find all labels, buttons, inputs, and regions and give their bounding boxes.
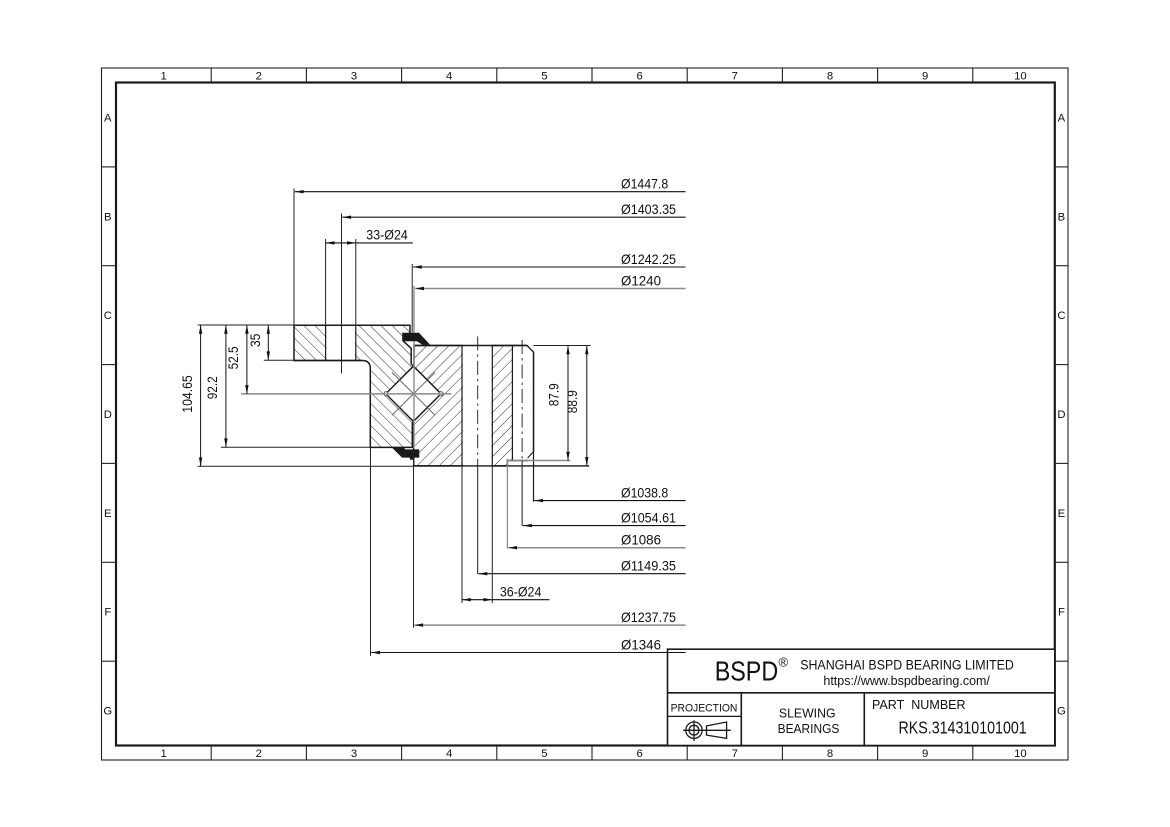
grid column tick dividers bottom strip bbox=[211, 746, 973, 761]
extension line: 104.65 outer ring bottom bbox=[198, 465, 414, 467]
svg-text:A: A bbox=[1058, 112, 1066, 124]
svg-text:104.65: 104.65 bbox=[179, 375, 195, 413]
dimension 52.5 bbox=[225, 325, 249, 394]
svg-text:G: G bbox=[103, 706, 112, 718]
svg-text:Ø1242.25: Ø1242.25 bbox=[621, 251, 676, 267]
svg-text:B: B bbox=[104, 211, 112, 223]
dimension leader &#216;1149.35 bbox=[479, 558, 686, 576]
gray reference vertical to &#216;1086 leader bbox=[506, 459, 508, 549]
dimension 36-&#216;24 hole width bbox=[462, 583, 550, 601]
extension line: 35 step surface bbox=[264, 359, 294, 361]
svg-text:C: C bbox=[1057, 310, 1065, 322]
bolt-circle centerline of outer ring holes bbox=[477, 336, 479, 468]
svg-text:Ø1403.35: Ø1403.35 bbox=[621, 201, 676, 217]
svg-text:BSPD: BSPD bbox=[715, 655, 779, 686]
svg-text:Ø1447.8: Ø1447.8 bbox=[621, 176, 668, 192]
svg-text:8: 8 bbox=[827, 748, 833, 760]
svg-text:6: 6 bbox=[636, 71, 642, 83]
dimension leader &#216;1038.8 bbox=[534, 484, 685, 502]
svg-text:Ø1149.35: Ø1149.35 bbox=[621, 558, 676, 574]
bearing inner ring cross-section (hatched) bbox=[294, 325, 413, 447]
extension line: outer ring top to right bbox=[534, 345, 591, 347]
svg-text:9: 9 bbox=[922, 748, 928, 760]
extension line for &#216;1447.8 (ring outer edge up) bbox=[293, 189, 295, 326]
svg-text:87.9: 87.9 bbox=[546, 383, 562, 406]
dimension leader &#216;1240 (gray reference) bbox=[415, 272, 685, 290]
lower seal (dark) bbox=[392, 448, 419, 460]
bearing outer ring cross-section (hatched) bbox=[413, 346, 533, 466]
dimension 92.2 bbox=[204, 325, 228, 447]
dimension 104.65 bbox=[179, 325, 203, 466]
svg-text:4: 4 bbox=[446, 71, 452, 83]
svg-text:Ø1346: Ø1346 bbox=[621, 636, 661, 652]
svg-text:PROJECTION: PROJECTION bbox=[671, 702, 738, 714]
roller vertical centerline (gray) bbox=[413, 286, 415, 448]
extension lines for 36-&#216;24 bbox=[461, 466, 463, 603]
grid column numbers 1-10 bottom bbox=[160, 748, 1026, 760]
dimension 35 bbox=[247, 325, 270, 360]
drawing frame outer border bbox=[102, 68, 1069, 760]
svg-text:5: 5 bbox=[541, 748, 547, 760]
svg-text:1: 1 bbox=[160, 71, 166, 83]
grid row tick dividers right strip bbox=[1055, 167, 1068, 661]
svg-text:10: 10 bbox=[1014, 71, 1027, 83]
extension line: ring top surface (left) bbox=[198, 324, 294, 326]
svg-text:2: 2 bbox=[256, 71, 262, 83]
drawing frame inner border bbox=[116, 83, 1055, 746]
svg-text:4: 4 bbox=[446, 748, 452, 760]
svg-text:88.9: 88.9 bbox=[564, 390, 580, 413]
outer ring bottom-right chamfer bbox=[528, 452, 534, 458]
outer ring top surface line bbox=[414, 345, 527, 347]
svg-text:C: C bbox=[104, 310, 112, 322]
dimension leader &#216;1346 bbox=[371, 636, 685, 654]
grid row letters A-G right bbox=[1057, 112, 1066, 717]
outer ring right edge + extension to diameter leaders bbox=[533, 352, 535, 501]
svg-text:D: D bbox=[104, 409, 112, 421]
svg-text:33-Ø24: 33-Ø24 bbox=[366, 227, 408, 243]
svg-text:E: E bbox=[1058, 508, 1066, 520]
dimension 33-&#216;24 hole width bbox=[326, 227, 413, 326]
dimension leader &#216;1447.8 bbox=[295, 176, 686, 194]
inner ring top surface line redraw over hole bbox=[294, 324, 410, 326]
svg-text:SLEWING: SLEWING bbox=[779, 706, 836, 721]
inner ring mounting bolt hole (33-&#216;24) white gap bbox=[327, 324, 355, 360]
svg-text:Ø1240: Ø1240 bbox=[621, 272, 661, 288]
svg-text:92.2: 92.2 bbox=[204, 376, 220, 399]
svg-text:PART NUMBER: PART NUMBER bbox=[872, 698, 966, 712]
svg-text:Ø1054.61: Ø1054.61 bbox=[621, 509, 676, 525]
dimension leader &#216;1086 (gray reference) bbox=[508, 532, 685, 550]
svg-text:10: 10 bbox=[1014, 748, 1027, 760]
extension line for &#216;1403.35 (bolt hole centerline) bbox=[341, 214, 343, 374]
grid row letters A-G left bbox=[103, 112, 112, 717]
svg-text:B: B bbox=[1058, 211, 1066, 223]
svg-text:BEARINGS: BEARINGS bbox=[778, 721, 840, 736]
grid column numbers 1-10 top bbox=[160, 71, 1026, 83]
svg-text:Ø1038.8: Ø1038.8 bbox=[621, 484, 668, 500]
title block outline bbox=[668, 649, 1055, 745]
svg-text:3: 3 bbox=[351, 71, 357, 83]
svg-text:7: 7 bbox=[732, 71, 738, 83]
svg-text:9: 9 bbox=[922, 71, 928, 83]
svg-text:5: 5 bbox=[541, 71, 547, 83]
svg-text:E: E bbox=[104, 508, 112, 520]
svg-text:1: 1 bbox=[160, 748, 166, 760]
svg-text:8: 8 bbox=[827, 71, 833, 83]
dimension 88.9 bbox=[564, 346, 589, 466]
outer ring bottom surface line bbox=[414, 465, 590, 467]
projection symbol: circle with crosshair bbox=[683, 720, 731, 741]
svg-text:SHANGHAI BSPD BEARING LIMITED: SHANGHAI BSPD BEARING LIMITED bbox=[800, 658, 1014, 674]
cross roller (rotated square) bbox=[386, 366, 441, 421]
outer ring right white band (gear region) bbox=[513, 346, 533, 459]
dimension leader &#216;1403.35 bbox=[342, 201, 685, 219]
grid row tick dividers left strip bbox=[102, 167, 117, 661]
grid column tick dividers top strip bbox=[211, 68, 973, 83]
svg-text:6: 6 bbox=[636, 748, 642, 760]
svg-text:https://www.bspdbearing.com/: https://www.bspdbearing.com/ bbox=[823, 673, 990, 688]
svg-text:Ø1086: Ø1086 bbox=[621, 532, 661, 548]
svg-text:RKS.314310101001: RKS.314310101001 bbox=[899, 718, 1027, 738]
extension line for &#216;1237.75 bbox=[413, 448, 415, 628]
dimension leader &#216;1237.75 (gray) bbox=[414, 609, 685, 627]
roller corner circles bbox=[384, 392, 388, 396]
svg-text:Ø1237.75: Ø1237.75 bbox=[621, 609, 676, 625]
extension line for &#216;1242.25 bbox=[411, 264, 413, 333]
svg-text:3: 3 bbox=[351, 748, 357, 760]
svg-text:G: G bbox=[1057, 706, 1066, 718]
dimension leader &#216;1054.61 bbox=[523, 509, 686, 527]
svg-text:52.5: 52.5 bbox=[225, 346, 241, 369]
outer ring recess floor (gray reference) bbox=[507, 460, 570, 462]
svg-text:35: 35 bbox=[247, 333, 263, 347]
extension line: 92.2 inner ring bottom bbox=[221, 446, 370, 448]
raceway reference centerline x=522 bbox=[521, 340, 523, 461]
roller horizontal centerline (gray) bbox=[241, 393, 451, 395]
svg-text:D: D bbox=[1057, 409, 1065, 421]
extension line for &#216;1346 (inner ring lower edge) bbox=[370, 447, 372, 656]
upper seal (dark) bbox=[402, 333, 430, 345]
svg-text:®: ® bbox=[779, 655, 789, 670]
outer ring mounting bolt hole (36-&#216;24) white gap bbox=[463, 344, 491, 367]
svg-text:F: F bbox=[104, 607, 111, 619]
dimension 87.9 bbox=[546, 346, 570, 461]
svg-text:7: 7 bbox=[732, 748, 738, 760]
roller axis cross lines bbox=[392, 372, 435, 415]
svg-text:A: A bbox=[104, 112, 112, 124]
dimension leader &#216;1242.25 bbox=[413, 251, 686, 269]
svg-text:2: 2 bbox=[256, 748, 262, 760]
svg-text:36-Ø24: 36-Ø24 bbox=[500, 583, 542, 599]
svg-text:F: F bbox=[1058, 607, 1065, 619]
